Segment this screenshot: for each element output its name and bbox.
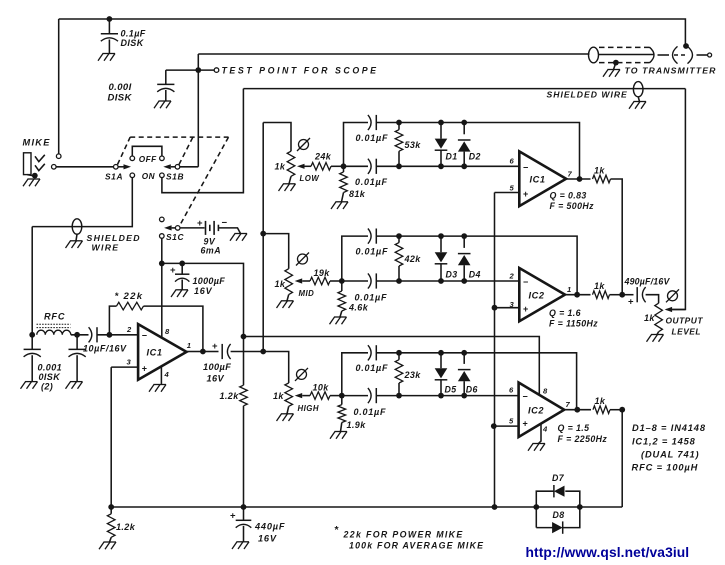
label IC1 minus input [142,331,148,341]
wire stage3 bottom cap lead [342,395,368,397]
svg-text:Q = 1.6: Q = 1.6 [549,308,581,318]
svg-text:ON: ON [142,172,156,181]
wire stage3 top rail left [342,353,368,396]
wire connector tail [697,54,708,56]
svg-text:IC1,2 = 1458: IC1,2 = 1458 [632,437,696,447]
label 1.9k [347,420,367,430]
label 1000uF plus [170,265,176,276]
label mike note star [335,524,340,536]
svg-text:22k FOR POWER MIKE: 22k FOR POWER MIKE [343,530,464,540]
wire 4.6k lead [341,281,343,291]
label parts note line2 [632,437,696,447]
label IC2b pin5 [509,417,514,426]
junction dot stage1 in [341,163,347,169]
svg-text:4: 4 [164,370,170,379]
node S1A OFF contact [130,156,135,161]
svg-text:7: 7 [568,170,573,179]
label mike note line1 [343,530,464,540]
label IC1 pin4 [164,370,170,379]
label 10k [313,383,330,393]
label SHIELDED WIRE top [547,90,628,100]
label OFF [139,155,157,164]
capacitor 0.01uF stage3 top [368,345,376,360]
svg-text:4.6k: 4.6k [348,303,369,313]
svg-text:1k: 1k [594,281,605,291]
wire 1.9k ground lead [341,423,342,432]
svg-text:2: 2 [509,272,515,281]
svg-text:D3: D3 [446,270,458,280]
label 490uF value [624,277,671,287]
label IC1f plus [523,189,529,199]
label 440uF value [254,522,285,532]
svg-text:81k: 81k [349,189,366,199]
label IC2m pin3 [510,300,515,309]
wire 100uF to bus [231,351,264,353]
ground 81k [331,202,348,209]
connector plug arc [673,46,678,63]
node test point terminal [214,68,219,73]
wire 1000uF top lead [181,263,183,274]
resistor 10k [310,392,330,400]
wire 23k leads [398,353,400,396]
label D5 [445,385,457,395]
resistor 1k out2 [593,291,610,299]
svg-text:16V: 16V [258,534,277,544]
label 1000uF voltage [194,286,213,296]
svg-text:6: 6 [510,157,515,166]
svg-text:100k FOR AVERAGE MIKE: 100k FOR AVERAGE MIKE [349,541,484,551]
capacitor 0.01uF stage3 bottom [368,388,376,403]
dashed gang link to S1C [179,137,228,226]
svg-text:−: − [222,218,228,229]
svg-text:1.2k: 1.2k [116,522,136,532]
label battery plus [197,218,203,229]
svg-text:D8: D8 [553,510,565,520]
wire D8 branch [536,507,580,528]
capacitor 0.001 DISK test point [157,84,174,91]
wire stage3 pot branch [263,352,289,384]
coax signal inner [599,54,655,56]
label Q stage3 [558,423,590,433]
wire 0.001 left to ground [31,355,33,381]
label S1B [166,172,184,182]
ground 0.1uF [98,54,115,61]
label IC1 pin3 [127,357,132,366]
resistor 4.6k [338,291,346,311]
junction dot D7D8 right [577,504,583,510]
wire IC1 pin3 [111,366,138,368]
svg-text:RFC: RFC [44,312,65,322]
capacitor 0.01uF stage2 top [368,229,376,244]
wire 490uF to pot [646,295,659,304]
capacitor 0.1uF DISK [101,34,118,41]
svg-text:SHIELDED: SHIELDED [87,233,141,243]
svg-text:490µF/16V: 490µF/16V [624,277,671,287]
svg-text:−: − [523,162,529,172]
wire S1B to output link [162,89,244,193]
svg-text:0.00I: 0.00I [109,82,132,93]
svg-text:+: + [197,218,203,229]
node S1A ON contact [130,173,135,178]
junction dot bottom rail left [108,504,114,510]
svg-text:WIRE: WIRE [92,242,120,252]
junction dot D7D8 left [533,504,539,510]
label IC1f pin6 [510,157,515,166]
svg-text:D7: D7 [552,473,565,483]
wire 53k leads [398,123,400,167]
svg-text:1000µF: 1000µF [193,276,226,286]
wire shielded run down to RFC [31,227,33,335]
label F stage2 [549,319,598,329]
wire mike ground lead [27,175,34,176]
op-amp IC1 preamp [138,324,186,380]
wire 440uF bottom lead [243,526,245,542]
wire 1k out3 to bus [610,409,622,411]
junction dot stage3 in [339,393,345,399]
label 100uF value [203,362,231,372]
label *22k [115,291,144,302]
wire IC2b pin5 [494,425,519,427]
junction dot Vplus rail [241,334,247,340]
svg-text:Q = 0.83: Q = 0.83 [550,191,587,201]
wire IC1 pin8 supply [161,263,163,337]
svg-text:Q = 1.5: Q = 1.5 [558,423,590,433]
label IC2b pin7 [566,400,571,409]
switch S1B pole [175,165,180,170]
svg-text:3: 3 [127,357,132,366]
svg-text:6mA: 6mA [201,246,222,256]
diode D3 [435,233,448,284]
svg-text:−: − [142,331,148,341]
label IC1 preamp name [147,348,163,358]
svg-text:0ISK: 0ISK [39,372,62,382]
wire IC1 pin3 to bias rail [110,367,112,507]
svg-text:0.1µF: 0.1µF [121,29,146,39]
junction dot IC2b out [574,407,580,413]
capacitor 0.01uF stage1 top [368,115,376,130]
label IC1f minus [523,162,529,172]
wire IC2m out [565,294,591,296]
coax cable left end [589,47,599,63]
node S1B ON contact [160,173,165,178]
wire coax shield ground lead [614,63,616,70]
wire stage1 bottom rail [376,165,519,167]
label LOW pot 1k [275,162,286,172]
svg-text:F = 500Hz: F = 500Hz [550,201,595,211]
svg-text:(2): (2) [41,382,53,392]
wire top rail to transmitter connector [59,19,686,44]
dashed gang link S1A [118,137,131,164]
wire 440uF top lead [243,507,245,520]
svg-text:S1C: S1C [166,232,184,242]
svg-text:16V: 16V [194,286,213,296]
label D1 [446,152,458,162]
wire 1000uF bottom lead [181,280,183,290]
wire 1k out2 to bus [610,294,623,296]
svg-text:8: 8 [543,387,548,396]
capacitor 1000uF [175,274,189,281]
label F stage3 [558,434,608,444]
svg-text:+: + [212,341,218,352]
svg-text:DISK: DISK [108,93,133,104]
resistor *22k [117,302,144,310]
ground battery [230,234,247,241]
svg-text:8: 8 [165,327,170,336]
svg-text:1k: 1k [273,391,284,401]
ground coax shield [603,70,620,77]
ground test point cap [154,101,171,108]
label IC1 pin8 [165,327,170,336]
ground LOW pot [279,184,296,191]
wire stage3 bottom rail [376,395,518,397]
junction dot feedback tap [107,332,113,338]
label 0.01uF stage1 top [356,133,389,143]
diode D4 [458,233,471,284]
wire feedback right [144,306,203,351]
label ON [142,172,156,181]
svg-text:IC2: IC2 [529,291,545,301]
svg-text:+: + [230,511,236,522]
label parts note line1 [632,423,706,433]
label WIRE left [92,242,120,252]
label 6mA [201,246,222,256]
op-amp IC2 mid filter [519,268,565,321]
label 100uF plus [212,341,218,352]
svg-text:0.001: 0.001 [38,363,63,373]
svg-text:LEVEL: LEVEL [672,327,702,337]
label 24k [314,152,332,162]
label D4 [469,270,481,280]
label IC1 pin2 [126,325,132,334]
ground shield loop input [66,241,83,248]
node S1C lower contact [160,234,165,239]
ground 0.001 right [66,382,83,389]
capacitor 0.001 disk left [24,349,41,356]
wire stage1 bottom cap lead [344,165,369,167]
coax cable right end [650,47,655,63]
label HIGH pot 1k [273,391,284,401]
wire bias bus [494,193,496,508]
junction dot coax shield ground [613,60,619,66]
wire connector gap [658,54,670,56]
dashed gang link S1B [179,137,193,164]
svg-text:42k: 42k [404,254,422,264]
node S1C upper contact [160,217,165,222]
junction dot test point [195,67,201,73]
svg-text:TEST POINT FOR SCOPE: TEST POINT FOR SCOPE [222,66,379,76]
label 10uF value [83,344,127,354]
junction dot IC1f out [577,176,583,182]
svg-text:100µF: 100µF [203,362,231,372]
wire 1.9k lead [341,396,343,405]
label 9V [204,237,216,247]
svg-text:OUTPUT: OUTPUT [666,316,704,326]
wire Vplus rail [244,337,540,395]
label 0.01uF stage2 bottom [355,293,388,303]
svg-text:−: − [523,277,529,287]
svg-text:1.2k: 1.2k [220,391,240,401]
label 440uF plus [230,511,236,522]
ground 1000uF [171,290,188,297]
label S1C [166,232,184,242]
diode D5 [435,350,448,399]
wire 1k out1 to bus [611,179,623,295]
label 490uF plus [628,297,634,308]
svg-text:D4: D4 [469,270,481,280]
svg-text:440µF: 440µF [254,522,285,532]
ground 440uF [232,542,249,549]
wire LOW pot ground lead [289,176,291,184]
svg-text:HIGH: HIGH [298,404,320,413]
label LEVEL [672,327,702,337]
ground mike jack [23,179,40,186]
wire IC1 pin1 out [187,351,202,353]
label IC1 filter name [530,175,546,185]
resistor 81k [340,172,348,193]
wire RFC right cap lead [76,335,78,350]
label 1k out3 [595,396,606,406]
label IC1f pin5 [510,184,515,193]
svg-text:http://www.qsl.net/va3iul: http://www.qsl.net/va3iul [526,545,690,560]
wire 0.1uF top lead [108,19,110,34]
svg-text:F = 1150Hz: F = 1150Hz [549,319,598,329]
inductor RFC core hatch [37,324,71,327]
svg-text:4: 4 [542,425,548,434]
wire test point stub [166,69,214,71]
diode D2 [458,120,471,170]
label 53k [405,140,422,150]
junction dot stage2 branch [260,231,266,237]
shield loop input [72,219,82,234]
inductor RFC coil [37,330,71,335]
svg-text:1k: 1k [594,166,605,176]
wire RFC to 10uF [71,334,89,336]
resistor 53k [395,130,403,152]
node mike tip terminal [56,154,61,159]
label 1k out2 [594,281,605,291]
wire bus to 490uF [622,294,633,296]
junction dot filter bus bottom [260,349,266,355]
label 1.2k lower [116,522,136,532]
svg-text:D2: D2 [469,152,481,162]
op-amp IC2 high filter [519,383,565,438]
junction dot IC2m pin3 [492,305,498,311]
wire connector center dash [674,54,688,56]
junction dot connector shield [683,43,689,49]
label 440uF voltage [258,534,277,544]
trimmer symbol LOW [297,138,310,151]
svg-text:5: 5 [510,184,515,193]
junction dot bias bus bottom [492,504,498,510]
switch S1A pole [114,165,119,170]
svg-text:24k: 24k [314,152,332,162]
svg-text:53k: 53k [405,140,422,150]
wire bias 1.2k top lead [243,337,245,386]
label 0.01uF stage1 bottom [355,177,388,187]
label D8 [553,510,565,520]
wire shielded output run [243,88,685,90]
svg-text:D5: D5 [445,385,457,395]
label mike note line2 [349,541,484,551]
label OUT pot 1k [644,313,655,323]
junction dot stage2 in [339,278,345,284]
label D2 [469,152,481,162]
svg-text:+: + [170,265,176,276]
label IC2b name [528,406,544,416]
wire 10uF to IC1 pin2 [97,334,138,336]
trimmer symbol MID [296,253,309,266]
resistor 1k out1 [593,175,611,183]
coax shield dashed top [599,46,651,48]
svg-text:19k: 19k [314,268,331,278]
label 1k out1 [594,166,605,176]
wire IC2m pin3 [495,307,520,309]
mike jack body [24,153,32,175]
junction dot bus mid [619,292,625,298]
capacitor 440uF [236,520,252,527]
svg-text:DISK: DISK [121,38,145,48]
wire S1C contact to supply rail [161,238,163,263]
label 1000uF value [193,276,226,286]
label IC2 mid name [529,291,545,301]
junction dot IC1 output [200,349,206,355]
wire battery to ground [218,228,240,234]
wire 0.001 cap bottom lead [165,90,167,101]
wire shield loop lead [638,97,639,102]
svg-text:1k: 1k [275,162,286,172]
label F stage1 [550,201,595,211]
ground 4.6k [330,317,347,324]
junction dot RFC left [29,332,35,338]
label 0.01uF stage3 top [356,363,389,373]
svg-text:+: + [628,297,634,308]
ground HIGH pot [277,414,294,421]
svg-text:5: 5 [509,417,514,426]
wire stage1 top rail [376,123,579,180]
svg-text:MID: MID [299,289,315,298]
resistor 19k [310,277,330,285]
svg-text:S1B: S1B [166,172,184,182]
trimmer symbol HIGH [295,368,308,381]
wire S1A ON to shielded run [32,178,132,227]
svg-text:16V: 16V [207,374,225,384]
wire 42k leads [398,236,400,281]
label HIGH [298,404,320,413]
label MID [299,289,315,298]
node transmitter terminal [708,53,712,57]
label 19k [314,268,331,278]
op-amp IC1 filter [519,151,566,206]
wire MID pot ground lead [287,295,289,301]
wire stage3 top rail [376,353,576,410]
svg-text:F = 2250Hz: F = 2250Hz [558,434,608,444]
junction dot RFC right [74,332,80,338]
wire RFC left cap lead [31,335,33,350]
potentiometer 1k HIGH [285,383,293,406]
junction dot 42k top [396,233,402,239]
label 0.001 (2) qty [41,382,53,392]
wire stage1 top rail left [344,123,369,167]
junction dot supply rail left [159,261,165,267]
label LOW [300,174,320,183]
label Q stage2 [549,308,581,318]
pot LOW wiper arrow [297,164,311,169]
label IC2m pin1 [567,285,572,294]
pot OUTPUT wiper arrow [665,307,686,312]
wire IC1 out to 100uF [203,351,219,353]
wire IC1f out [566,178,590,180]
capacitor 0.001 disk right [69,349,86,356]
